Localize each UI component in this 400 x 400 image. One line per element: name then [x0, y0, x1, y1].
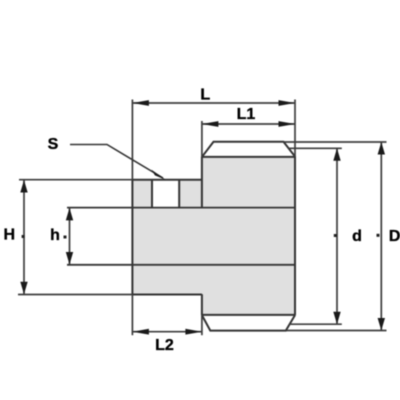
dim L arrow right: [279, 100, 296, 106]
dim d arrow down: [333, 312, 340, 325]
d tick dot: [334, 234, 337, 237]
hub top edge: [132, 179, 202, 181]
dim L ext right: [294, 100, 296, 157]
bottom tooth trapezoid outline: [202, 315, 295, 331]
H tick dot: [22, 235, 25, 238]
dim L1 arrow left: [202, 121, 219, 127]
dim L2 arrow right: [185, 329, 202, 335]
D tick dot: [377, 234, 380, 237]
svg-text:L2: L2: [155, 337, 174, 354]
dim D line: [380, 142, 382, 331]
svg-text:D: D: [389, 228, 400, 245]
dim H arrow up: [20, 180, 27, 193]
top tooth trapezoid outline: [202, 142, 295, 157]
svg-text:L1: L1: [237, 106, 256, 123]
dim D ext top: [284, 141, 387, 143]
blank right edge: [294, 156, 296, 315]
dim L2 arrow left: [132, 329, 149, 335]
dim L1 arrow right: [279, 121, 296, 127]
hub bottom edge: [132, 294, 202, 296]
dim d ext top: [289, 147, 342, 149]
tooth root line bottom: [202, 314, 295, 316]
dim H ext bottom: [18, 294, 132, 296]
dim L2 line: [132, 331, 202, 333]
dim d ext bottom: [290, 323, 342, 325]
dim h arrow up: [66, 208, 73, 221]
dim H line: [23, 180, 25, 294]
svg-text:h: h: [50, 227, 60, 244]
S leader line: [70, 145, 163, 179]
blank left edge upper segment: [201, 157, 203, 209]
blank left edge lower segment: [201, 294, 203, 315]
hub left edge: [131, 179, 133, 295]
dim L arrow left: [132, 100, 149, 106]
sprocket blank (slab) gray fill: [202, 157, 295, 315]
dim H ext top: [19, 179, 132, 181]
dim d line: [336, 148, 338, 324]
svg-text:S: S: [48, 136, 59, 153]
dim L ext left: [131, 100, 133, 180]
dim L line: [132, 102, 295, 104]
svg-text:H: H: [4, 227, 16, 244]
svg-text:L: L: [200, 87, 210, 104]
dim h line: [69, 208, 71, 264]
dim D arrow up: [378, 142, 385, 155]
S leader arrowhead: [151, 170, 166, 180]
dim d arrow up: [333, 148, 340, 161]
dim D ext bottom: [286, 330, 387, 332]
bore line bottom: [67, 264, 295, 266]
dim L1 ext left: [201, 121, 203, 157]
tooth root line top: [202, 156, 295, 158]
h tick dot: [64, 236, 67, 239]
dim H arrow down: [20, 282, 27, 295]
dim L1 line: [202, 123, 295, 125]
svg-text:d: d: [352, 228, 362, 245]
dim D arrow down: [378, 318, 385, 331]
hub gray fill: [132, 180, 202, 295]
keyway notch S (white): [152, 180, 179, 208]
dim L2 ext left: [131, 295, 133, 335]
dim L2 ext right: [201, 315, 203, 335]
dim h arrow down: [66, 252, 73, 265]
bore line top: [67, 207, 295, 209]
